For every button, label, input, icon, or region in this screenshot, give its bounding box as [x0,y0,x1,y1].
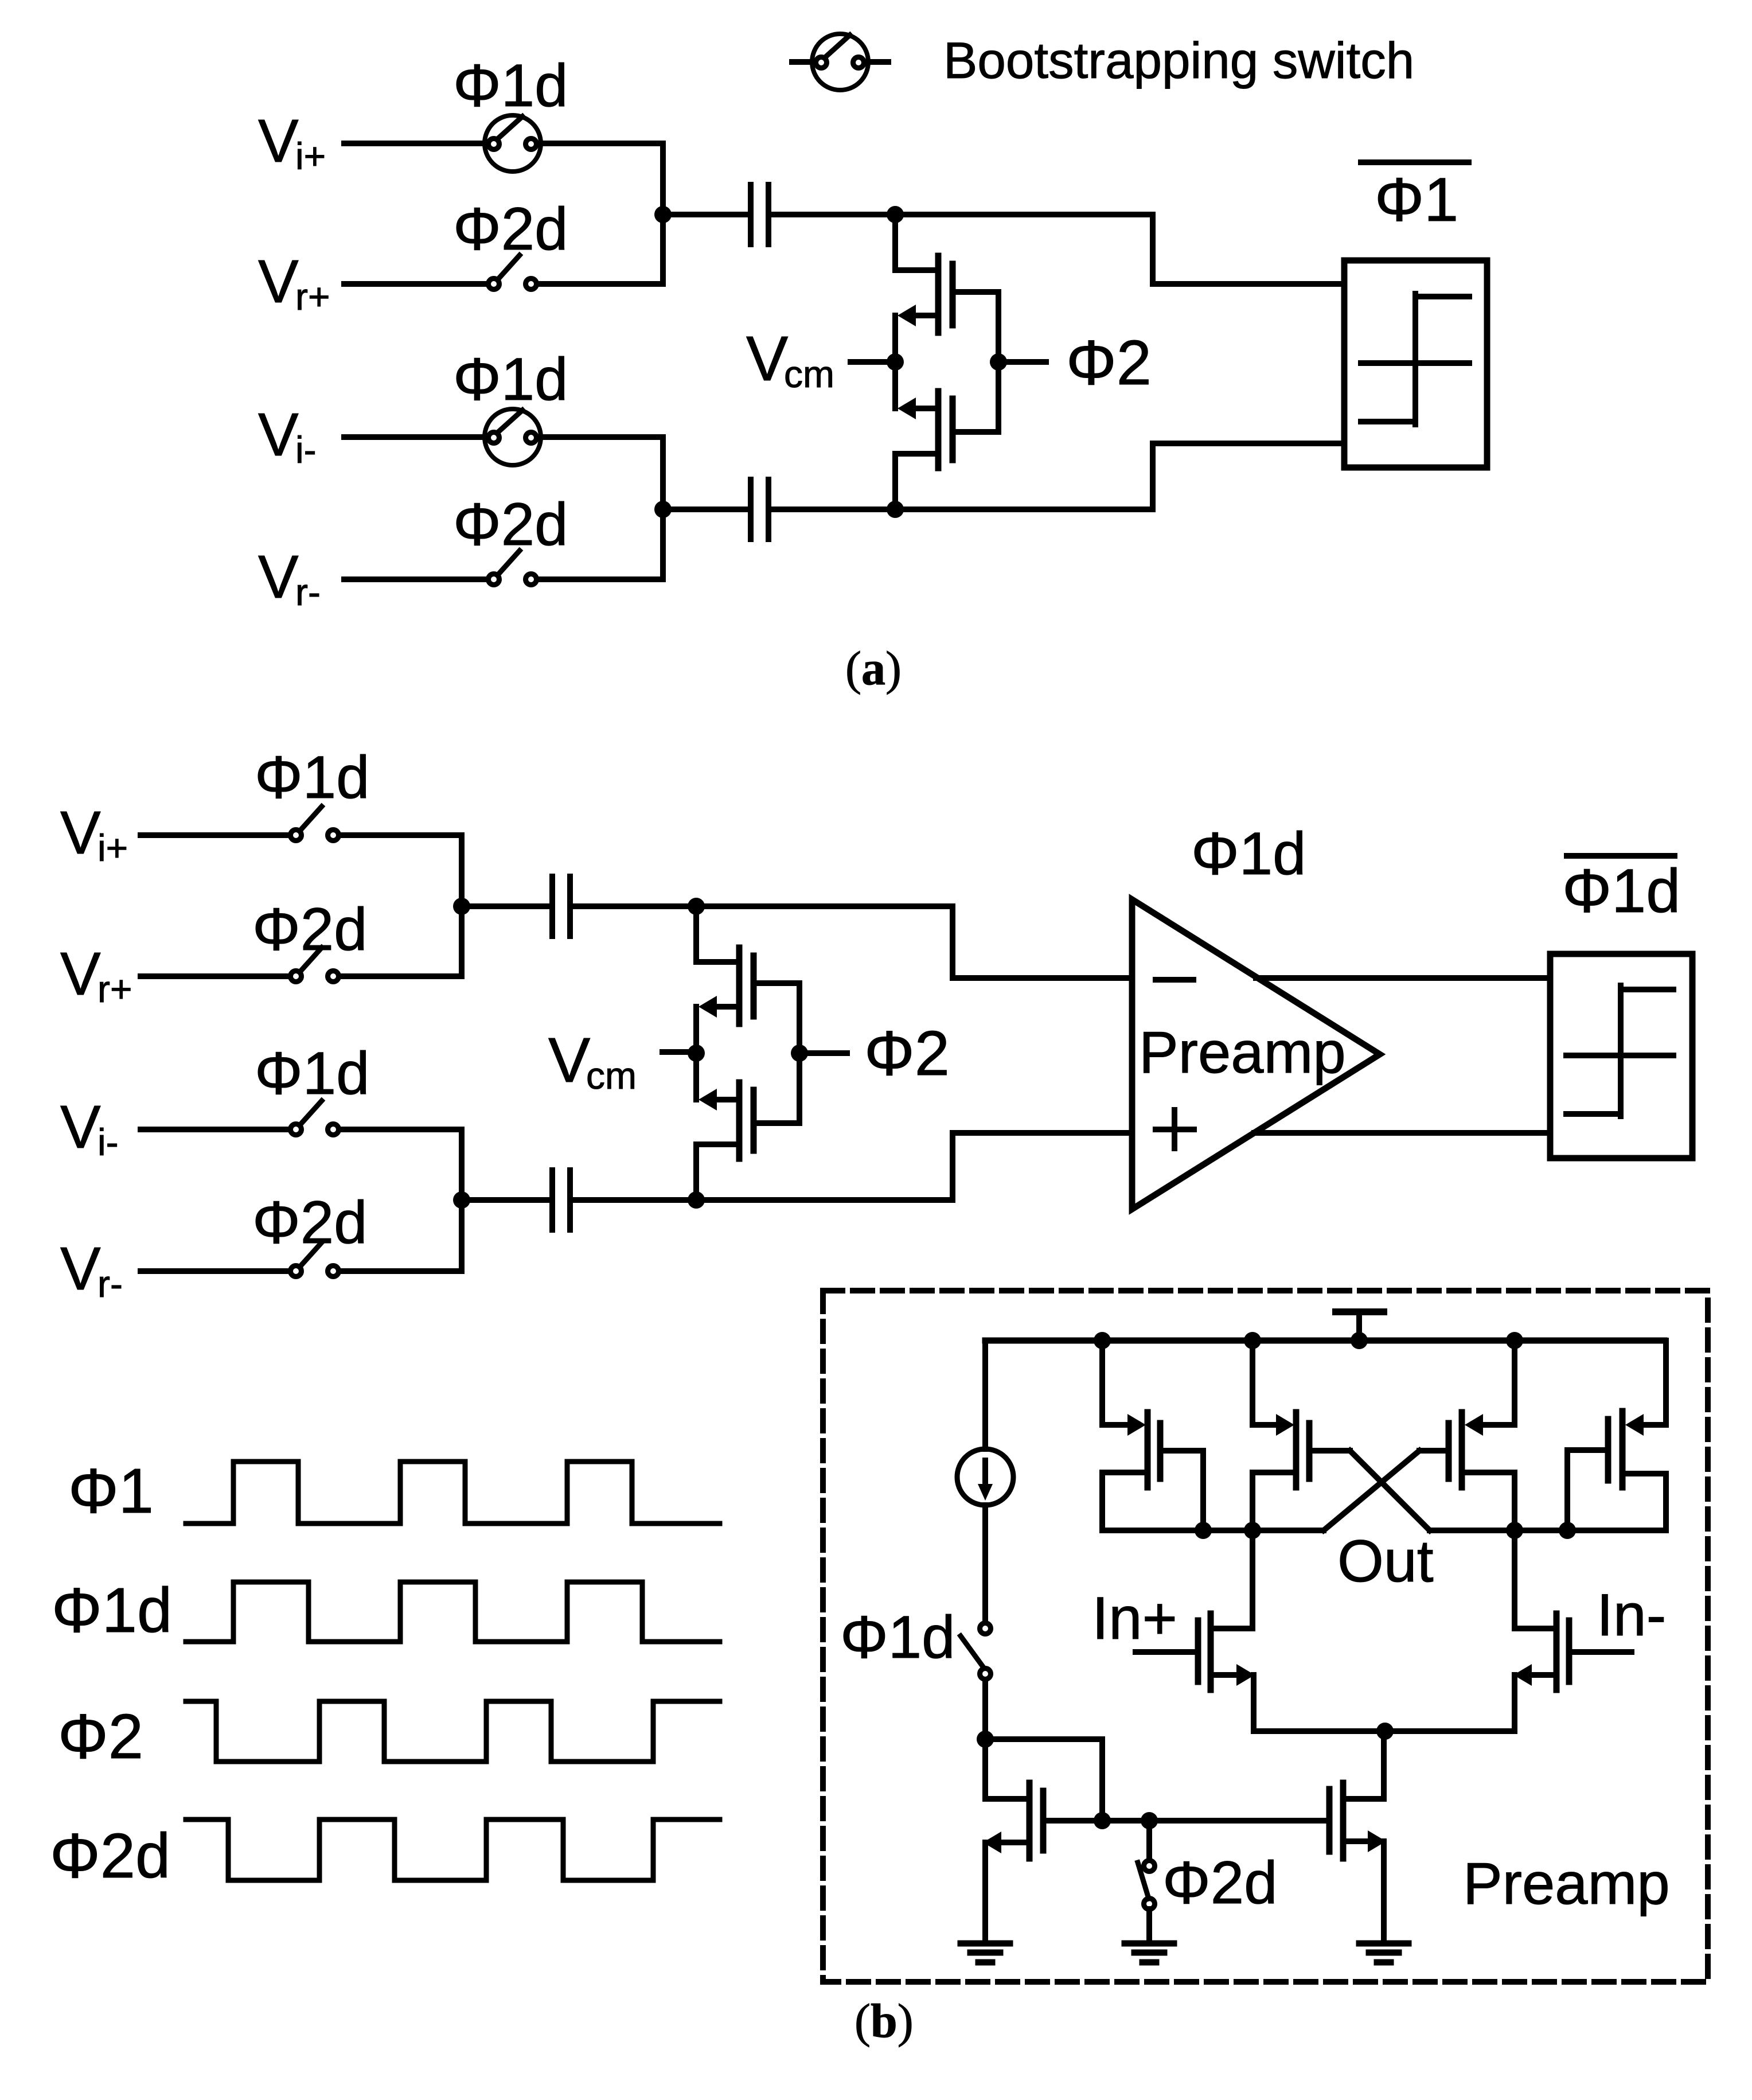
svg-text:Bootstrapping switch: Bootstrapping switch [943,32,1414,89]
svg-text:(a): (a) [845,642,902,695]
svg-text:Φ2d: Φ2d [453,196,568,263]
svg-text:i+: i+ [295,135,326,177]
svg-text:Out: Out [1337,1528,1434,1595]
svg-text:i-: i- [97,1121,119,1163]
svg-text:Φ2: Φ2 [1066,328,1152,398]
svg-text:V: V [258,543,299,611]
svg-text:Φ2: Φ2 [58,1701,143,1772]
svg-text:Preamp: Preamp [1139,1019,1346,1085]
svg-text:Φ1d: Φ1d [453,346,568,413]
svg-text:Φ2d: Φ2d [453,491,568,558]
svg-text:V: V [60,1235,101,1303]
svg-text:(b): (b) [854,1994,914,2048]
svg-text:Φ2d: Φ2d [252,1189,368,1256]
svg-text:In+: In+ [1092,1585,1177,1652]
svg-text:Φ2d: Φ2d [1162,1849,1278,1916]
svg-text:V: V [258,401,299,469]
svg-text:Φ1d: Φ1d [52,1575,172,1646]
svg-text:Φ1d: Φ1d [453,52,568,119]
svg-text:i+: i+ [97,827,128,869]
svg-text:Φ1d: Φ1d [255,1040,370,1107]
svg-text:V: V [60,940,101,1008]
svg-text:cm: cm [784,353,834,395]
svg-text:Φ1d: Φ1d [840,1604,955,1671]
svg-text:V: V [258,248,299,315]
svg-text:V: V [60,799,101,867]
svg-text:Preamp: Preamp [1463,1850,1670,1916]
svg-text:r+: r+ [295,275,330,318]
svg-text:Φ2d: Φ2d [50,1821,170,1891]
svg-text:In-: In- [1597,1582,1666,1649]
svg-text:V: V [548,1025,590,1096]
svg-text:r-: r- [97,1263,123,1305]
svg-text:cm: cm [586,1054,637,1097]
svg-text:Φ2d: Φ2d [252,896,368,963]
svg-text:Φ1d: Φ1d [255,744,370,811]
svg-text:V: V [258,107,299,175]
svg-text:Φ1d: Φ1d [1562,856,1680,925]
svg-text:r-: r- [295,571,321,613]
svg-text:r+: r+ [97,968,132,1010]
svg-text:Φ1d: Φ1d [1191,820,1306,887]
svg-text:V: V [60,1093,101,1161]
svg-text:Φ2: Φ2 [864,1018,950,1089]
svg-text:Φ1: Φ1 [1375,165,1458,234]
svg-text:Φ1: Φ1 [68,1456,154,1526]
svg-text:V: V [746,324,788,394]
svg-text:i-: i- [295,428,317,471]
